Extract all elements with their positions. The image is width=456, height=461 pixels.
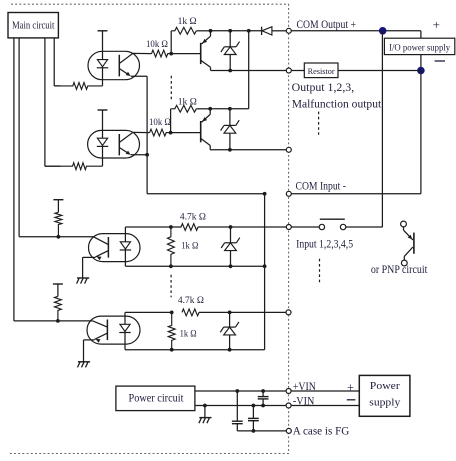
node pull-up input1 bottom (57, 235, 61, 239)
svg-text:COM Output +: COM Output + (297, 19, 357, 31)
resistor PC1 LED series (54, 83, 102, 90)
optocoupler PC1 phototransistor (119, 53, 147, 76)
capacitor C2 (-VIN to FG) (248, 406, 259, 431)
wire input1 bottom rail (125, 265, 264, 267)
svg-text:or PNP circuit: or PNP circuit (371, 264, 428, 276)
svg-text:Power circuit: Power circuit (129, 392, 185, 404)
wire main-to-input-opto2 collector (14, 38, 58, 321)
node resistor-line / supply (navy) (417, 67, 425, 75)
svg-text:10k Ω: 10k Ω (146, 39, 168, 50)
optocoupler PC2 LED (97, 138, 108, 166)
wire -VIN line (195, 405, 286, 407)
box Main circuit (8, 13, 58, 38)
resistor 4.7k input1 (171, 224, 198, 231)
wire input2 bottom rail (125, 349, 265, 351)
node base junction stage2 (169, 131, 173, 135)
terminal stage1 output (286, 68, 291, 73)
wire input1 line from LED (125, 226, 170, 228)
wire base junction to Q1 (171, 53, 201, 55)
resistor PC2 LED series (45, 163, 103, 170)
resistor 1k stage1 (171, 27, 196, 53)
terminal COM Input - (286, 191, 291, 196)
wire COM output line (211, 30, 262, 32)
svg-text:+: + (347, 380, 354, 394)
node input1 line left (169, 225, 173, 229)
label − near Power supply (347, 399, 356, 401)
optocoupler PC1 body (88, 51, 140, 79)
node input2 line left (170, 311, 174, 315)
wire +VIN line (195, 390, 286, 392)
terminal COM Output + (286, 28, 291, 33)
wire 1k to collector node stage1 (196, 30, 210, 32)
ground power circuit (199, 406, 212, 424)
wire -VIN to Power supply (291, 405, 360, 407)
wire COM input feeder vertical (264, 194, 266, 350)
svg-text:+: + (433, 17, 440, 32)
wire input1 collector feed (58, 236, 93, 238)
node +VIN cap C bypass (235, 389, 239, 393)
svg-text:1k Ω: 1k Ω (181, 240, 198, 251)
ellipsis dashed between output stages (170, 76, 172, 102)
label − near I/O supply (435, 60, 445, 62)
resistor 10k stage2 (150, 129, 171, 136)
resistor 1k input2 (vertical) (168, 312, 175, 349)
node stage2 riser on COM line (247, 29, 251, 33)
label A case is FG (293, 426, 350, 438)
wire I/O supply bottom to resistor line (420, 55, 422, 71)
terminal input2 (286, 310, 291, 315)
label 10k ohm stage1 (146, 39, 168, 50)
node zener D2 bottom (228, 148, 232, 152)
node -VIN cap A bottom (261, 404, 265, 408)
node zener D4 bottom (228, 348, 232, 352)
terminal input1 (286, 225, 291, 230)
node Q1 emitter on COM line (209, 29, 213, 33)
label Output 1,2,3, (292, 81, 355, 94)
optocoupler PC2 body (88, 130, 140, 158)
terminal +VIN (286, 389, 291, 394)
wire stage1 output line (211, 70, 287, 72)
label 1k ohm input1 (181, 240, 198, 251)
wire 1k to collector node stage2 (196, 108, 210, 110)
resistor pull-up input1 (55, 212, 62, 237)
box Power circuit (116, 386, 195, 411)
optocoupler PC1 LED (97, 60, 108, 86)
ellipsis dashed below Input label (319, 259, 321, 283)
wire PC1 emitter return vertical (147, 76, 265, 194)
capacitor C3 (+VIN to FG) (232, 391, 243, 431)
node zener D3 top (229, 225, 233, 229)
svg-text:10k Ω: 10k Ω (149, 117, 171, 128)
node rail1 to feeder (263, 264, 267, 268)
diode COM output series (262, 27, 287, 35)
node zener D2 top (228, 107, 232, 111)
resistor 1k stage2 (171, 105, 197, 132)
node COM input feeder (263, 192, 267, 196)
supply rail T-bar above PC2 LED (98, 110, 108, 138)
label 4.7k ohm input2 (178, 295, 204, 306)
wire switch riser vertical (381, 31, 383, 227)
svg-text:supply: supply (369, 397, 401, 408)
svg-text:1k Ω: 1k Ω (178, 16, 197, 27)
wire Resistor box to supply minus node (338, 70, 421, 72)
supply T-bar input pullup 1 (53, 200, 63, 213)
label + near I/O supply (433, 17, 440, 32)
wire supply minus vertical to COM input line (420, 71, 422, 194)
wire main-to-output-opto1 LED resistor (54, 38, 60, 86)
svg-text:Resistor: Resistor (308, 66, 335, 76)
optocoupler PC3 body (89, 234, 141, 262)
capacitor C1 (+VIN to -VIN) (258, 391, 269, 406)
resistor 10k stage1 (152, 50, 172, 57)
label 1k ohm stage2 (178, 96, 197, 107)
node PC2 emitter joins return (145, 153, 149, 157)
node 1k input2 bottom (170, 348, 174, 352)
label COM Input - (296, 181, 347, 193)
svg-text:A case is FG: A case is FG (293, 426, 350, 438)
node 1k input1 bottom (169, 264, 173, 268)
label COM Output + (297, 19, 357, 31)
supply T-bar input pullup 2 (53, 284, 63, 296)
node COM+ / switch riser (navy) (379, 27, 387, 35)
wire +VIN to Power supply (291, 390, 360, 392)
zener diode D3 input1 (221, 227, 240, 266)
ground input opto2 emitter (78, 341, 91, 367)
wire input2 line to terminal (199, 311, 286, 313)
svg-text:Power: Power (370, 381, 401, 392)
node zener D1 bottom (228, 69, 232, 73)
node zener D1 top (228, 29, 232, 33)
node -VIN ground stub (203, 404, 207, 408)
supply rail T-bar above PC1 LED (98, 31, 108, 60)
zener diode D1 stage1 (221, 31, 240, 71)
box I/O power supply (384, 38, 454, 54)
node base junction stage1 (169, 52, 173, 56)
label 1k ohm stage1 (178, 16, 197, 27)
node +VIN cap A (261, 389, 265, 393)
optocoupler PC2 phototransistor (119, 132, 147, 155)
wire input2 line from LED (125, 311, 172, 313)
zener diode D2 stage2 (221, 109, 240, 150)
svg-text:Input 1,2,3,4,5: Input 1,2,3,4,5 (296, 239, 353, 251)
label +VIN (293, 381, 316, 393)
resistor pull-up input2 (55, 296, 62, 321)
wire input1 line to terminal (198, 226, 286, 228)
svg-text:1k Ω: 1k Ω (180, 328, 197, 339)
wire main-to-input-opto1 collector (19, 38, 58, 237)
node zener D4 top (228, 311, 232, 315)
terminal stage2 output (286, 147, 291, 152)
switch contact bar (320, 218, 345, 220)
optocoupler PC4 LED (119, 312, 130, 349)
wire base junction to Q2 (171, 132, 201, 134)
node zener D3 bottom (229, 264, 233, 268)
optocoupler PC3 phototransistor (83, 237, 109, 260)
label 1k ohm input2 (180, 328, 197, 339)
switch contact left (291, 224, 324, 229)
svg-text:I/O power supply: I/O power supply (389, 43, 450, 53)
svg-text:Main circuit: Main circuit (12, 21, 55, 32)
optocoupler PC3 LED (120, 227, 131, 266)
ground input opto1 emitter (77, 257, 90, 283)
ellipsis dashed between input stages (170, 275, 172, 298)
wire main-to-output-opto2 LED resistor (45, 38, 61, 166)
wire FG rail (237, 430, 286, 432)
svg-text:COM Input -: COM Input - (296, 181, 347, 193)
label Input 1,2,3,4,5 (296, 239, 353, 251)
resistor 1k input1 (vertical) (168, 227, 175, 266)
wire COM input line right segment (291, 193, 421, 195)
label or PNP circuit (371, 264, 428, 276)
resistor 4.7k input2 (182, 309, 199, 316)
zener diode D4 input2 (220, 312, 239, 349)
terminal A case is FG (286, 428, 291, 433)
switch contact right (340, 224, 382, 229)
label 4.7k ohm input1 (180, 211, 206, 222)
node Q2 emitter on stage2 top line (208, 107, 212, 111)
wire stage2 top line to riser (210, 31, 249, 109)
wire input2 collector feed (58, 320, 93, 322)
optocoupler PC4 phototransistor (84, 320, 108, 343)
wire stage2 output line (210, 149, 286, 151)
wire PC2 collector to 10k (133, 131, 150, 133)
label -VIN (293, 395, 315, 407)
transistor Q1 (PNP) (201, 31, 211, 71)
transistor PNP external circuit (401, 221, 414, 266)
label + near Power supply (347, 380, 354, 394)
svg-text:4.7k Ω: 4.7k Ω (180, 211, 206, 222)
wire PC1 collector to 10k (133, 52, 152, 54)
node cap B bottom on FG rail (252, 429, 256, 433)
label Malfunction output (292, 97, 382, 110)
ellipsis dashed below Malfunction output (318, 112, 320, 135)
svg-text:Output 1,2,3,: Output 1,2,3, (292, 81, 355, 94)
box Power supply (359, 375, 410, 416)
device boundary dashed frame (10, 4, 289, 453)
svg-text:1k Ω: 1k Ω (178, 96, 197, 107)
label 10k ohm stage2 (149, 117, 171, 128)
terminal -VIN (286, 403, 291, 408)
box Resistor (291, 63, 338, 78)
svg-text:4.7k Ω: 4.7k Ω (178, 295, 204, 306)
node -VIN cap B top (252, 404, 256, 408)
transistor Q2 (PNP) (201, 109, 211, 150)
svg-text:Malfunction output: Malfunction output (292, 97, 382, 110)
optocoupler PC4 body (87, 316, 140, 344)
node pull-up input2 bottom (56, 319, 60, 323)
wire COM+ to I/O supply (291, 31, 421, 38)
